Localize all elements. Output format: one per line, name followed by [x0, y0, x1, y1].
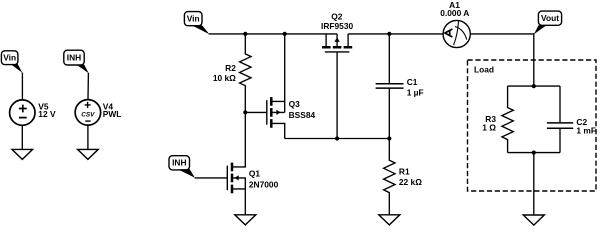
junction dot Q3 source/rail — [283, 32, 287, 36]
transistor Q3 BSS84 (PMOS) — [267, 34, 316, 139]
svg-text:Vin: Vin — [3, 53, 16, 63]
transistor Q2 IRF9530 (PMOS, horizontal) — [321, 11, 353, 52]
ground — [78, 149, 99, 159]
node Vin flag (main circuit) — [184, 12, 209, 35]
wire top rail Vin to Q2 source — [209, 33, 337, 35]
svg-text:22 kΩ: 22 kΩ — [399, 177, 422, 187]
load box (dashed) — [468, 60, 597, 191]
resistor R1 — [384, 139, 423, 215]
ground — [12, 149, 33, 159]
capacitor C1 — [376, 34, 424, 139]
svg-text:Load: Load — [474, 64, 494, 74]
wire — [21, 73, 23, 101]
ammeter A1 — [440, 0, 470, 48]
wire — [87, 125, 89, 149]
svg-text:CSV: CSV — [81, 111, 95, 118]
wire top rail Q2 drain to ammeter — [348, 33, 443, 35]
svg-text:Vout: Vout — [541, 13, 559, 23]
svg-text:C1: C1 — [407, 77, 418, 87]
ground — [235, 215, 256, 225]
node Vout flag — [534, 11, 562, 34]
svg-text:Q1: Q1 — [249, 169, 261, 179]
svg-text:PWL: PWL — [103, 109, 122, 119]
svg-text:IRF9530: IRF9530 — [321, 21, 353, 31]
wire Q2 gate down — [336, 52, 338, 139]
wire — [21, 125, 23, 149]
transistor Q1 2N7000 (NMOS) — [227, 112, 278, 214]
wire load top — [508, 85, 560, 87]
svg-text:R2: R2 — [225, 63, 236, 73]
svg-text:10 kΩ: 10 kΩ — [213, 73, 236, 83]
junction dot Vout/load top — [532, 84, 536, 88]
wire to ground — [533, 153, 535, 215]
svg-text:R1: R1 — [399, 167, 410, 177]
wire ammeter to Vout corner — [471, 34, 534, 86]
junction dot R2/rail — [243, 32, 247, 36]
svg-text:INH: INH — [67, 53, 81, 63]
resistor R3 — [482, 86, 513, 153]
svg-text:Q3: Q3 — [289, 99, 301, 109]
svg-text:Vin: Vin — [187, 14, 200, 24]
wire Q3 gate — [245, 111, 266, 113]
wire Q1 gate — [195, 177, 228, 179]
junction dot C1/rail — [387, 32, 391, 36]
node INH flag (main circuit) — [169, 156, 195, 178]
svg-text:INH: INH — [172, 157, 186, 167]
ground — [523, 215, 544, 225]
junction dot R2/Q3 gate/Q1 drain — [243, 110, 247, 114]
resistor R2 — [213, 34, 251, 113]
junction dot C1/R1/node — [387, 136, 391, 140]
wire — [87, 73, 89, 100]
capacitor C2 — [547, 86, 596, 153]
voltage source V4 PWL — [75, 100, 121, 126]
junction dot load bottom — [532, 151, 536, 155]
ground — [379, 215, 400, 225]
svg-text:2N7000: 2N7000 — [249, 179, 279, 189]
svg-text:1 mF: 1 mF — [576, 126, 596, 136]
wire gate node (Q3 drain to R1/C1) — [285, 138, 390, 140]
svg-text:0.000 A: 0.000 A — [440, 8, 469, 18]
svg-text:12 V: 12 V — [38, 109, 56, 119]
node INH flag (source V4) — [64, 50, 89, 73]
svg-text:1 µF: 1 µF — [407, 88, 424, 98]
svg-text:1 Ω: 1 Ω — [482, 123, 496, 133]
junction dot Q2 gate/node — [335, 136, 339, 140]
svg-text:Q2: Q2 — [331, 11, 343, 21]
voltage source V5 — [10, 100, 56, 125]
node Vin flag (source V5) — [1, 51, 22, 73]
wire load bottom — [508, 152, 560, 154]
svg-text:BSS84: BSS84 — [289, 110, 316, 120]
